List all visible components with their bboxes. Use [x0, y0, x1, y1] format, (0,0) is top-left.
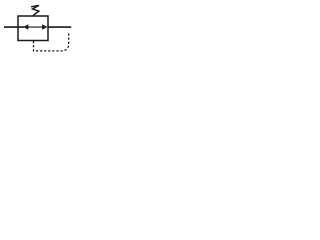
outlet line (right port): [48, 26, 71, 28]
pressure regulator symbol (pneumatic schematic): [0, 0, 81, 57]
left arrowhead: [23, 24, 28, 29]
internal flow arrow shaft: [24, 26, 43, 28]
spring (zigzag) on top of box: [31, 5, 39, 15]
right arrowhead: [42, 24, 47, 29]
dashed pilot feedback line: [34, 33, 69, 51]
regulator body box: [18, 16, 48, 41]
inlet line (left port): [4, 26, 24, 28]
